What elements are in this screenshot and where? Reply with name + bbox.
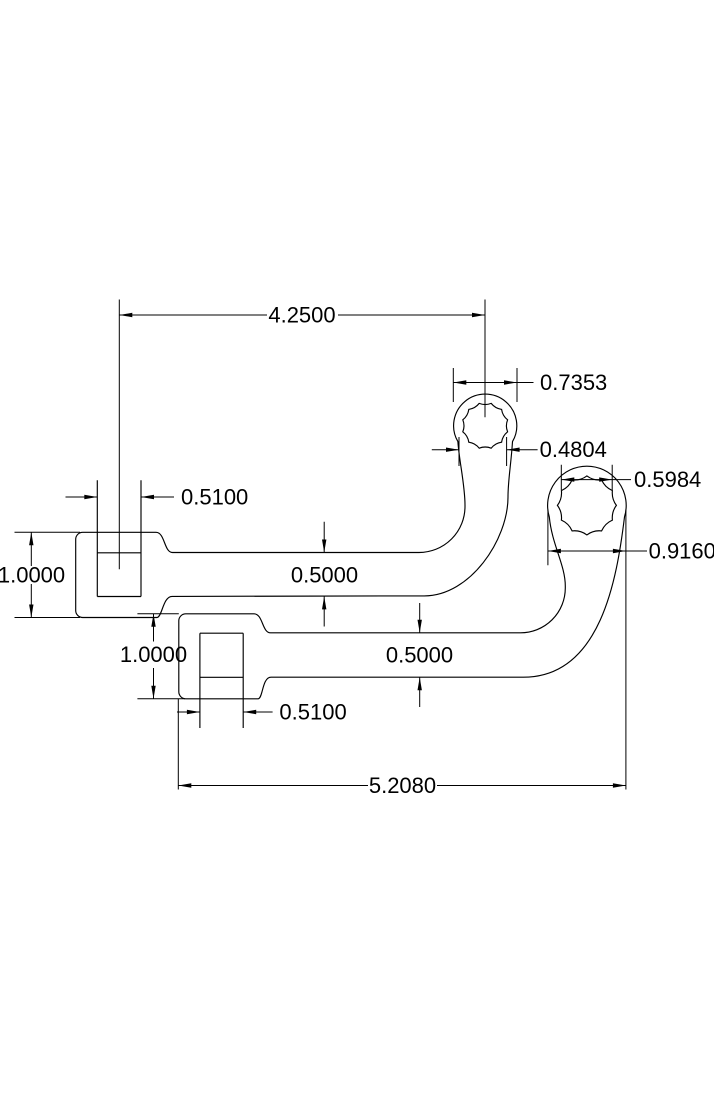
dimension 0.5000 W1 — [291, 522, 358, 627]
dimension 0.4804 — [432, 437, 607, 466]
dimension 0.5100 W1 — [66, 485, 249, 510]
dimension 0.7353 — [453, 368, 607, 402]
dimension 0.5000 W2 — [386, 603, 453, 707]
svg-text:0.9160: 0.9160 — [649, 539, 714, 564]
svg-text:0.5984: 0.5984 — [634, 467, 701, 492]
dimension 0.5984 — [561, 465, 701, 492]
dimension 0.5100 W2 — [177, 700, 347, 725]
wrench W1 square drive hole — [97, 480, 141, 596]
wrench W2 outline — [179, 466, 626, 699]
dimension 1.0000 W2 — [120, 614, 187, 699]
svg-text:0.5100: 0.5100 — [279, 700, 346, 725]
svg-text:1.0000: 1.0000 — [0, 563, 65, 588]
svg-text:0.5100: 0.5100 — [181, 485, 248, 510]
wrench W2 12-point hole — [557, 476, 616, 535]
dimension 0.9160 — [548, 510, 714, 790]
wrench W1 ring centerline / 4.2500 right extension — [484, 300, 486, 418]
dimension 1.0000 W1 — [0, 532, 80, 617]
svg-text:0.5000: 0.5000 — [291, 563, 358, 588]
svg-text:5.2080: 5.2080 — [369, 773, 436, 798]
wrench W1 outline — [76, 394, 517, 617]
wrench W1 square centerline / 4.2500 left extension — [118, 300, 120, 570]
dimension 4.2500 — [119, 303, 485, 328]
svg-text:1.0000: 1.0000 — [120, 642, 187, 667]
svg-text:4.2500: 4.2500 — [268, 303, 335, 328]
dimension 5.2080 — [178, 699, 626, 798]
svg-text:0.5000: 0.5000 — [386, 643, 453, 668]
svg-text:0.7353: 0.7353 — [540, 370, 607, 395]
wrench W1 12-point hole — [463, 403, 508, 448]
wrench W2 square drive hole — [200, 633, 243, 728]
svg-text:0.4804: 0.4804 — [540, 437, 607, 462]
